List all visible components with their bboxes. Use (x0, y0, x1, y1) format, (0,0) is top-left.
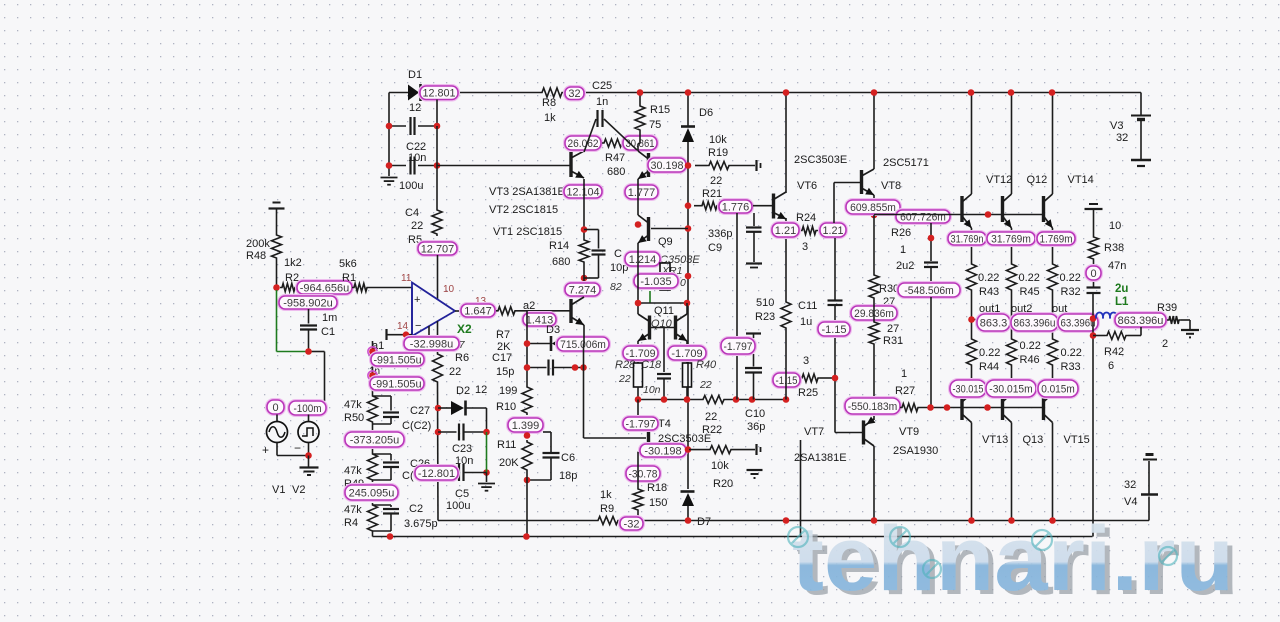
resistor R27 1 (895, 368, 920, 412)
wire (583, 264, 585, 297)
capacitor parallel (373, 454, 400, 480)
svg-text:−: − (294, 441, 301, 455)
svg-text:-30.198: -30.198 (644, 445, 681, 457)
svg-text:R11: R11 (497, 439, 516, 451)
ground (1181, 330, 1199, 337)
svg-text:10: 10 (443, 284, 455, 295)
junction dots (581, 226, 588, 281)
svg-text:7: 7 (459, 340, 465, 351)
svg-text:C1: C1 (321, 326, 335, 338)
svg-text:R27: R27 (895, 385, 915, 397)
wire top +32V rail (389, 93, 1141, 115)
probe label 0.015m (1038, 380, 1078, 397)
watermark tehnari.ru (788, 508, 1239, 614)
junction dot (968, 89, 975, 96)
wire VT1 emitter (583, 325, 586, 438)
probe label -12.801 (415, 466, 458, 480)
wire (1011, 93, 1013, 263)
wire op-amp output (455, 310, 461, 312)
svg-text:150: 150 (649, 497, 667, 509)
wire top driver row (874, 214, 1044, 216)
junction dots (1090, 315, 1097, 339)
probe label 715.006m (557, 337, 609, 351)
resistor R7 2K (496, 307, 517, 353)
svg-text:R42: R42 (1104, 346, 1124, 358)
resistor R14 680 (549, 238, 589, 268)
wire (753, 205, 772, 207)
svg-text:V3: V3 (1110, 120, 1123, 132)
svg-text:14: 14 (397, 321, 409, 332)
svg-text:2SA1381E: 2SA1381E (794, 452, 847, 464)
probe label 30.861 (623, 136, 657, 150)
svg-text:22: 22 (411, 220, 423, 232)
probe label 29.836m (851, 306, 897, 320)
capacitor 47n (1087, 260, 1127, 293)
svg-text:C(: C( (402, 470, 414, 482)
junction dots (637, 89, 692, 169)
junction dot (305, 348, 312, 355)
capacitor C18 (657, 374, 671, 400)
svg-text:11: 11 (401, 273, 412, 284)
probe label 607.726m (896, 210, 950, 223)
probe label -32 (620, 517, 643, 530)
probe label 863.396u (1115, 313, 1166, 327)
probe label 12.104 (564, 185, 602, 198)
svg-text:3: 3 (803, 355, 809, 367)
svg-text:12: 12 (475, 384, 487, 396)
svg-text:0.22: 0.22 (978, 272, 999, 284)
svg-text:2SA1930: 2SA1930 (893, 445, 938, 457)
diode D6 (681, 93, 713, 490)
svg-text:-1.797: -1.797 (626, 418, 656, 430)
resistor R25 3 (798, 355, 835, 399)
probe label 863.396u (1011, 314, 1058, 331)
svg-text:47k: 47k (344, 399, 362, 411)
probe label 0 (267, 400, 284, 414)
probe label 609.855m (846, 200, 900, 214)
svg-text:C5: C5 (455, 488, 469, 500)
junction dots (435, 405, 442, 436)
pin number 13 (475, 296, 487, 307)
probe label -1.15 (818, 322, 850, 336)
junction dots (635, 396, 790, 403)
capacitor 2u2 (924, 223, 938, 283)
probe label 0 (1086, 261, 1101, 287)
junction dot (1049, 89, 1056, 96)
ground (269, 203, 285, 234)
junction dots (387, 533, 530, 540)
probe label -373.205u (345, 432, 404, 447)
wire bottom ground rail (373, 536, 1093, 538)
ground (747, 470, 763, 478)
capacitor C17 15p (492, 352, 584, 378)
capacitor C22 10n (389, 102, 437, 164)
svg-text:R25: R25 (798, 387, 818, 399)
svg-text:−: − (415, 320, 421, 332)
svg-text:VT14: VT14 (1068, 174, 1094, 186)
capacitor C9 336p (708, 213, 762, 268)
resistor R6 22 (433, 352, 470, 384)
resistor R47 680 (602, 139, 625, 178)
svg-text:C10: C10 (745, 408, 765, 420)
probe label 1.777 (625, 185, 658, 199)
wire output base bus (920, 407, 1044, 409)
probe label 1.776 (719, 200, 752, 213)
svg-text:VT2 2SC1815: VT2 2SC1815 (489, 204, 558, 216)
wire (1011, 423, 1013, 521)
svg-text:607.726m: 607.726m (900, 211, 946, 223)
wire (526, 472, 528, 537)
svg-text:1.399: 1.399 (512, 420, 540, 432)
svg-text:R10: R10 (496, 401, 516, 413)
wire (834, 306, 836, 433)
probe label 12.707 (418, 242, 457, 255)
svg-text:680: 680 (552, 256, 570, 268)
resistor R23 510 (755, 297, 791, 400)
junction dot (273, 284, 280, 291)
svg-text:R40: R40 (696, 359, 717, 371)
wire (873, 346, 875, 420)
junction dot (403, 331, 410, 338)
resistor R9 1k (596, 489, 620, 525)
ground (478, 473, 495, 491)
svg-text:680: 680 (607, 166, 625, 178)
ground (1085, 204, 1103, 209)
svg-text:D7: D7 (697, 516, 711, 528)
svg-text:V1: V1 (272, 484, 285, 496)
transistor Q12 (1003, 174, 1048, 228)
svg-text:-548.506m: -548.506m (904, 285, 954, 297)
svg-text:12.801: 12.801 (423, 88, 456, 100)
svg-text:-964.656u: -964.656u (300, 282, 350, 294)
probe label 1.214 (625, 252, 660, 266)
source V2 (292, 415, 319, 497)
probe label 1.21 (820, 223, 846, 237)
label texts VT3 VT2 VT1 (489, 186, 565, 238)
svg-text:R14: R14 (549, 240, 569, 252)
wire node a2 (517, 300, 570, 312)
transistor VT3 (571, 151, 584, 178)
resistor R46 0.22 (1007, 320, 1041, 394)
svg-text:1.214: 1.214 (629, 254, 657, 266)
svg-text:D1: D1 (408, 69, 422, 81)
svg-text:C4: C4 (405, 207, 419, 219)
svg-text:-30.015: -30.015 (953, 383, 984, 395)
probe label -32.998u (404, 337, 465, 351)
wire (1052, 93, 1054, 263)
junction dot (928, 235, 935, 242)
net text out (1052, 303, 1067, 315)
texts VT9 (893, 426, 938, 457)
svg-text:C27: C27 (410, 405, 430, 417)
probe label -1.035 (634, 274, 686, 289)
probe label 31.769n (948, 232, 986, 245)
svg-text:C(C2): C(C2) (402, 420, 431, 432)
svg-text:R48: R48 (246, 250, 266, 262)
probe label 31.769m (987, 232, 1035, 245)
transistor VT13 (962, 391, 1008, 446)
svg-text:R39: R39 (1157, 302, 1177, 314)
svg-text:6: 6 (1108, 360, 1114, 372)
svg-text:18p: 18p (559, 470, 577, 482)
probe label 1.21 (772, 223, 799, 237)
junction dot (832, 375, 839, 382)
resistor R4 47k (344, 503, 378, 533)
svg-text:3.675p: 3.675p (404, 518, 438, 530)
label dots (368, 347, 377, 380)
svg-text:0.22: 0.22 (1020, 340, 1041, 352)
junction dots (483, 429, 490, 476)
svg-text:32: 32 (1116, 132, 1128, 144)
resistor R50 47k (344, 394, 378, 424)
svg-text:10: 10 (1109, 220, 1121, 232)
svg-text:R9: R9 (600, 503, 614, 515)
svg-text:0: 0 (680, 277, 686, 289)
probe label -30.198 (640, 444, 686, 457)
probe label -1.709 (668, 346, 706, 360)
svg-text:R4: R4 (344, 517, 358, 529)
svg-text:10n: 10n (643, 384, 661, 396)
diode D3 (527, 324, 584, 351)
svg-text:R23: R23 (755, 311, 775, 323)
svg-text:2SC5171: 2SC5171 (883, 157, 929, 169)
svg-text:1n: 1n (596, 96, 608, 108)
resistor R18 150 (633, 482, 667, 521)
wire lower bus (638, 399, 786, 401)
svg-text:0: 0 (1090, 268, 1096, 280)
svg-text:L1: L1 (1115, 296, 1129, 308)
texts Q11 Q10 (651, 305, 674, 330)
svg-text:Q11: Q11 (654, 305, 674, 317)
transistor Q13 (1003, 391, 1044, 446)
capacitor C10 36p (745, 334, 765, 434)
svg-text:3: 3 (802, 241, 808, 253)
probe label -1.797 (721, 338, 755, 354)
resistor R30 27 (869, 215, 899, 308)
svg-text:R43: R43 (979, 286, 999, 298)
wire left supply column (389, 93, 437, 177)
svg-text:VT6: VT6 (797, 180, 817, 192)
probe label -100m (289, 401, 326, 415)
wire (437, 384, 440, 521)
svg-text:Q13: Q13 (1023, 434, 1044, 446)
pin number 10 (443, 284, 455, 295)
resistor R48 200k (246, 233, 282, 262)
svg-text:R32: R32 (1061, 286, 1081, 298)
capacitor C11 1u (798, 238, 843, 328)
svg-text:VT12: VT12 (986, 174, 1012, 186)
svg-text:R18: R18 (647, 482, 667, 494)
svg-text:12: 12 (409, 102, 421, 114)
probe label -964.656u (297, 281, 352, 294)
wire VAS column (785, 93, 787, 301)
svg-text:V2: V2 (292, 484, 305, 496)
resistor R31 27 (869, 300, 903, 347)
wire (800, 440, 802, 537)
svg-text:22: 22 (449, 366, 461, 378)
capacitor 10p (584, 230, 628, 279)
probe label 30.198 (648, 158, 686, 172)
wire feedback column (369, 341, 380, 394)
transistor VT6 (774, 154, 848, 219)
wire (277, 443, 309, 456)
capacitor parallel (373, 396, 400, 424)
svg-text:D2: D2 (456, 385, 470, 397)
svg-text:C6: C6 (561, 452, 575, 464)
probe label -1.709 (623, 346, 658, 360)
junction dots (871, 89, 878, 218)
svg-text:47n: 47n (1108, 260, 1126, 272)
svg-text:22: 22 (699, 379, 712, 391)
net text out2 (1011, 303, 1032, 315)
probe label -548.506m (898, 283, 960, 297)
junction dots (386, 123, 441, 169)
svg-text:-30.015m: -30.015m (989, 383, 1032, 395)
svg-text:100u: 100u (446, 500, 470, 512)
svg-text:-30.78: -30.78 (629, 468, 658, 480)
transistor Q10 (638, 314, 650, 341)
svg-text:R50: R50 (344, 412, 364, 424)
svg-text:VT1 2SC1815: VT1 2SC1815 (493, 226, 562, 238)
wire VT8 base (834, 183, 862, 224)
probe label -991.505u (371, 353, 424, 366)
svg-text:-958.902u: -958.902u (283, 297, 333, 309)
svg-text:D6: D6 (699, 107, 713, 119)
capacitor C5 100u (438, 464, 487, 512)
transistor VT15 (1044, 391, 1090, 446)
svg-text:-12.801: -12.801 (418, 468, 455, 480)
svg-text:R46: R46 (1020, 354, 1040, 366)
texts R28 C18 R40 (615, 359, 717, 396)
probe label -1.797 (623, 417, 658, 430)
wire (637, 452, 639, 487)
capacitor C25 1n (584, 80, 637, 152)
resistor XR1 (660, 263, 670, 290)
svg-text:Q9: Q9 (658, 236, 673, 248)
svg-text:22: 22 (618, 373, 631, 385)
svg-text:C25: C25 (592, 80, 612, 92)
capacitor C1 1m (300, 309, 337, 352)
svg-text:-32.998u: -32.998u (410, 338, 453, 350)
svg-text:C18: C18 (641, 359, 662, 371)
svg-text:C9: C9 (708, 242, 722, 254)
resistor R39 2 (1157, 302, 1190, 350)
svg-text:VT9: VT9 (899, 426, 919, 438)
pin number 14 (397, 321, 409, 332)
svg-text:0.22: 0.22 (979, 347, 1000, 359)
svg-text:10k: 10k (709, 134, 727, 146)
resistor R38 10 (1089, 209, 1125, 261)
svg-text:a2: a2 (523, 300, 535, 312)
svg-text:1: 1 (901, 368, 907, 380)
wire (526, 311, 528, 385)
svg-text:-32: -32 (624, 518, 640, 530)
junction dot (685, 446, 692, 453)
svg-text:1.769m: 1.769m (1040, 233, 1073, 245)
svg-text:32: 32 (568, 88, 580, 100)
probe label -991.505u (370, 377, 424, 390)
svg-text:VT8: VT8 (881, 180, 901, 192)
svg-text:X2: X2 (457, 322, 472, 336)
resistor R43 0.22 (967, 262, 1000, 320)
svg-text:R38: R38 (1104, 242, 1124, 254)
resistor R10 199 (496, 385, 532, 415)
svg-text:863.396u: 863.396u (1014, 317, 1056, 329)
probe label 26.062 (565, 136, 601, 152)
battery V4 (1124, 455, 1158, 509)
op-amp X2 (412, 283, 472, 337)
svg-text:R6: R6 (455, 352, 469, 364)
svg-text:tehnari.ru: tehnari.ru (792, 508, 1234, 610)
svg-text:200k: 200k (246, 238, 270, 250)
probe label -550.183m (845, 398, 900, 414)
wire VT7 base (835, 432, 863, 434)
junction dot (783, 89, 790, 96)
junction dot (985, 211, 992, 218)
resistor R49 47k (344, 452, 378, 490)
capacitor C4 / resistor R5 (405, 207, 442, 246)
probe label 1.399 (508, 418, 543, 432)
probe label -30.78 (626, 466, 660, 481)
wire VT3 base row (437, 126, 570, 208)
svg-text:-100m: -100m (293, 403, 321, 415)
transistor stage (638, 144, 688, 180)
ground (381, 178, 398, 185)
svg-text:R47: R47 (605, 152, 625, 164)
wire (583, 179, 585, 238)
transistor VT8 (862, 157, 929, 195)
battery V3 (1110, 116, 1151, 167)
svg-text:-1.15: -1.15 (821, 324, 846, 336)
svg-text:32: 32 (1124, 479, 1136, 491)
transistor Q11 (676, 314, 688, 341)
svg-text:R19: R19 (708, 147, 728, 159)
wire (736, 213, 738, 400)
wire Q10/Q11 base bus (638, 243, 688, 314)
resistor R24 3 (786, 212, 818, 253)
probe label 1.769m (1037, 232, 1075, 245)
diode D2 (438, 384, 487, 432)
svg-text:863.3: 863.3 (980, 317, 1008, 329)
svg-text:+: + (262, 443, 269, 457)
svg-text:2u: 2u (1115, 283, 1128, 295)
svg-text:R31: R31 (883, 335, 903, 347)
resistor R15 75 (635, 93, 670, 144)
junction dot (524, 477, 531, 484)
probe label 12.801 (420, 86, 458, 100)
svg-text:R21: R21 (702, 188, 722, 200)
wire (873, 93, 875, 216)
svg-text:VT7: VT7 (804, 426, 824, 438)
junction dot (305, 452, 312, 459)
svg-text:22: 22 (705, 411, 717, 423)
svg-text:0.22: 0.22 (1060, 272, 1081, 284)
svg-text:0.015m: 0.015m (1041, 383, 1075, 395)
svg-text:0.22: 0.22 (1061, 347, 1082, 359)
capacitor 100u (389, 157, 437, 193)
wire (372, 533, 374, 537)
wire to op-amp +input (369, 287, 412, 289)
svg-text:1.776: 1.776 (722, 201, 750, 213)
capacitor C6 18p (527, 432, 577, 482)
svg-text:-373.205u: -373.205u (350, 434, 400, 446)
transistor VT14 (1044, 174, 1094, 228)
resistor R22 22 (701, 396, 726, 437)
junction dots (685, 517, 1056, 524)
svg-text:863.396u: 863.396u (1118, 315, 1164, 327)
wire (green) (486, 432, 488, 473)
svg-text:D3: D3 (546, 324, 560, 336)
